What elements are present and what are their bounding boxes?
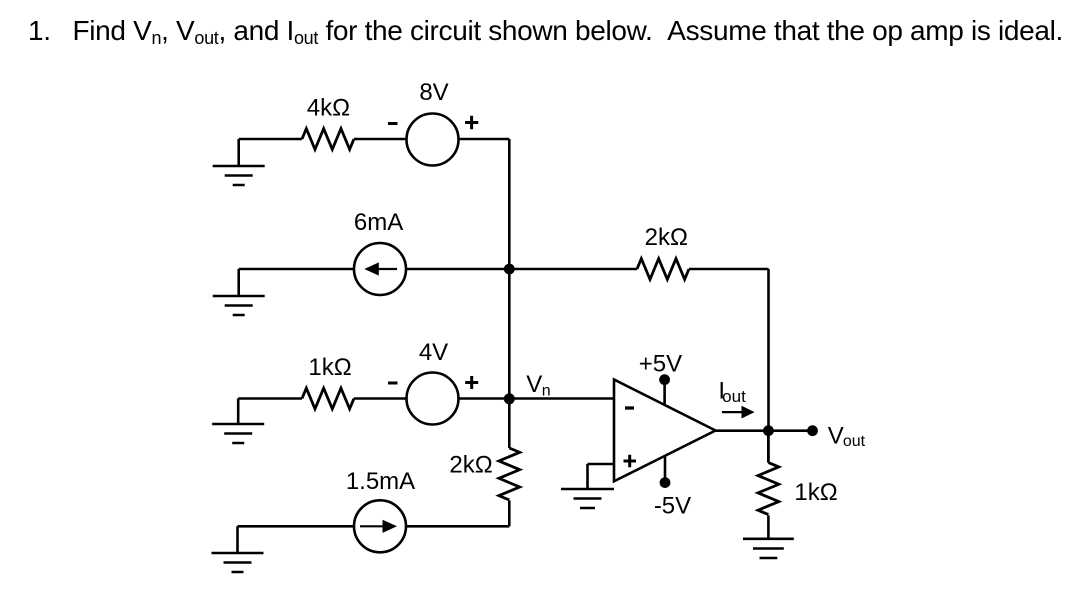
svg-text:6mA: 6mA: [354, 209, 403, 236]
node A junction dot: [504, 264, 515, 275]
wire G1 to R1: [239, 138, 302, 141]
op-amp noninverting mark: [624, 455, 637, 468]
resistor R3 2k vertical: [499, 448, 520, 500]
wire R1 to V1: [354, 138, 407, 141]
resistor R4 1k output: [758, 431, 779, 515]
wire op-amp output: [716, 429, 813, 432]
op-amp inverting mark: [625, 406, 634, 409]
wire G2 to I1: [239, 268, 354, 271]
arrow I1 6mA: [374, 268, 397, 270]
node Vout terminal dot: [807, 425, 818, 436]
node output junction dot: [763, 425, 774, 436]
ground G2: [213, 269, 265, 315]
ground G5: [561, 464, 614, 508]
svg-text:+5V: +5V: [639, 351, 682, 378]
wire node Vn to op-amp: [509, 397, 614, 400]
svg-text:-5V: -5V: [654, 493, 691, 520]
current source I2 1.5mA: [354, 500, 406, 552]
arrow Iout: [722, 411, 742, 413]
node +5V terminal dot: [659, 374, 670, 385]
svg-text:2kΩ: 2kΩ: [449, 451, 492, 478]
wire +5V stub: [663, 380, 666, 405]
wire R2 to corner: [689, 268, 769, 271]
wire G4 to I2: [238, 525, 355, 528]
op-amp U1: [614, 380, 716, 482]
polarity minus V1: [388, 122, 398, 125]
wire I2 to corner: [406, 525, 509, 528]
wire corner down to node A: [508, 139, 511, 269]
node -5V terminal dot: [660, 477, 671, 488]
wire op-amp noninverting to ground: [588, 463, 615, 466]
resistor R1 4k: [302, 129, 354, 150]
node Vn junction dot: [504, 393, 515, 404]
wire node Vn down to R3: [508, 399, 511, 449]
wire G3 to R5: [238, 397, 302, 400]
ground G4: [212, 526, 264, 572]
svg-text:1.Find Vn, Vout, and Iout for: 1.Find Vn, Vout, and Iout for the circui…: [28, 15, 1063, 48]
current source I1 6mA: [354, 243, 406, 295]
svg-text:1.5mA: 1.5mA: [346, 468, 415, 495]
resistor R5 1k: [302, 388, 354, 409]
svg-text:4kΩ: 4kΩ: [307, 94, 350, 121]
arrow I2 1.5mA: [360, 525, 383, 527]
resistor R2 2k feedback: [637, 259, 689, 280]
wire V2 to node Vn: [459, 397, 510, 400]
wire node A down to node Vn: [508, 269, 511, 399]
voltage source V2 4V: [407, 373, 459, 425]
ground G1: [213, 139, 265, 185]
wire feedback vertical: [767, 269, 770, 431]
svg-text:1kΩ: 1kΩ: [308, 354, 351, 381]
polarity minus V2: [388, 382, 398, 385]
wire R5 to V2: [354, 397, 407, 400]
wire V1 to corner: [459, 138, 510, 141]
wire -5V stub: [664, 456, 667, 483]
svg-text:4V: 4V: [419, 339, 448, 366]
wire I1 to node A and R2: [406, 268, 637, 271]
wire R3 to bottom corner: [508, 500, 511, 526]
polarity plus V2: [465, 376, 478, 389]
ground G6: [743, 515, 794, 558]
voltage source V1 8V: [407, 114, 459, 166]
svg-text:1kΩ: 1kΩ: [794, 479, 837, 506]
ground G3: [212, 399, 264, 444]
svg-text:8V: 8V: [419, 79, 448, 106]
svg-text:2kΩ: 2kΩ: [645, 224, 688, 251]
polarity plus V1: [465, 116, 478, 129]
